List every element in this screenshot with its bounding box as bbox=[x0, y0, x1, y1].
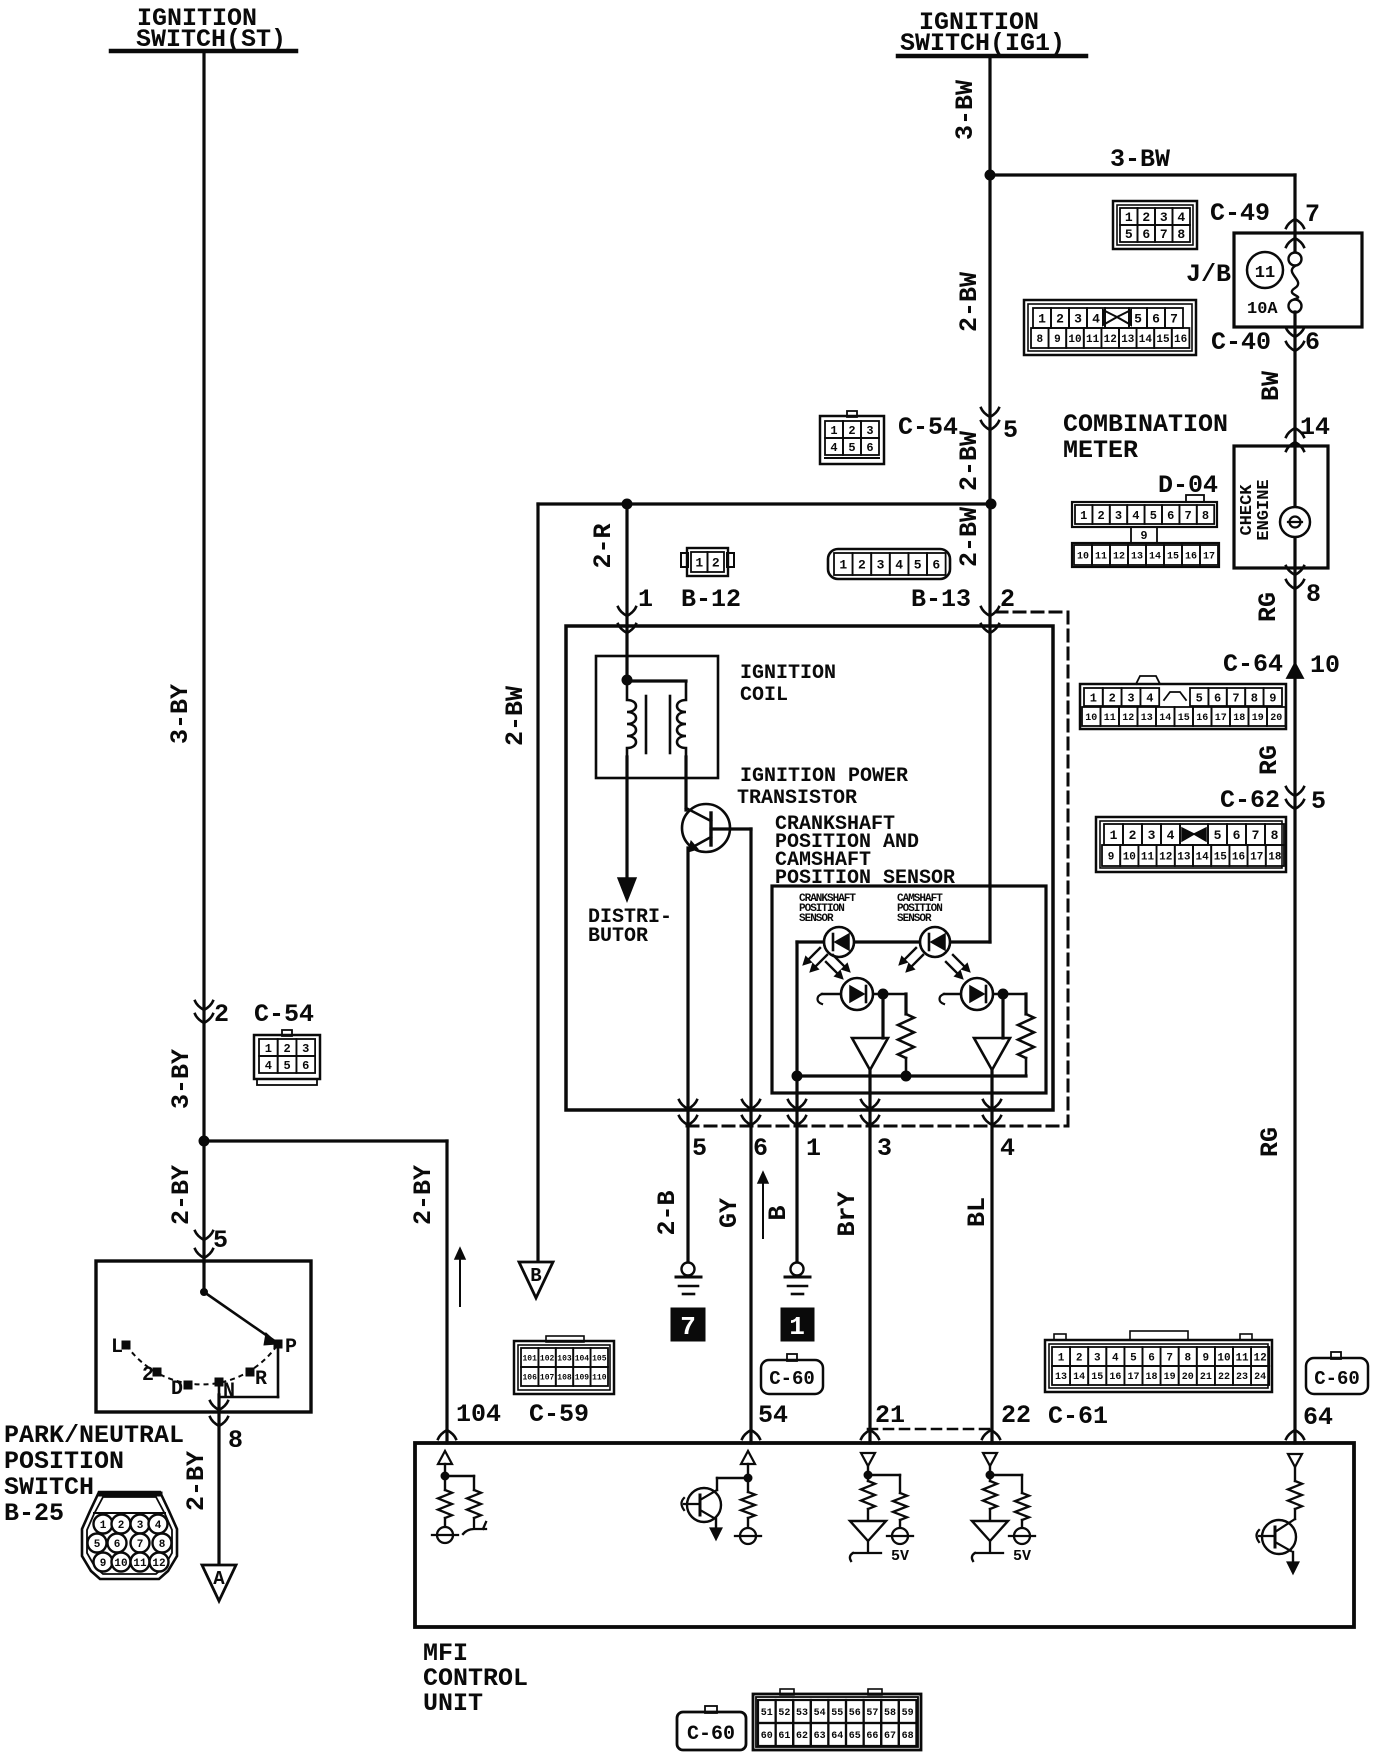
resistor MFI 104 pull left bbox=[444, 1476, 446, 1490]
svg-text:3: 3 bbox=[1160, 210, 1168, 225]
MFI input triangle pin 54 bbox=[741, 1451, 755, 1464]
resistor crank load bbox=[898, 1014, 914, 1058]
svg-text:C-59: C-59 bbox=[529, 1400, 589, 1429]
svg-text:2-BW: 2-BW bbox=[955, 507, 984, 567]
svg-text:16: 16 bbox=[1232, 851, 1245, 863]
svg-text:101: 101 bbox=[522, 1354, 537, 1363]
svg-text:53: 53 bbox=[796, 1708, 808, 1719]
wire 2-BY horizontal to MFI 104 bbox=[204, 1139, 447, 1142]
svg-text:14: 14 bbox=[1195, 851, 1209, 863]
svg-text:109: 109 bbox=[575, 1373, 590, 1382]
svg-text:ENGINE: ENGINE bbox=[1255, 479, 1274, 540]
node MFI 22 bbox=[986, 1471, 994, 1479]
svg-text:TRANSISTOR: TRANSISTOR bbox=[737, 787, 857, 810]
svg-text:2: 2 bbox=[858, 558, 866, 573]
svg-text:8: 8 bbox=[1184, 1352, 1191, 1364]
ground marker 1 bbox=[781, 1308, 814, 1341]
svg-text:12: 12 bbox=[1104, 334, 1117, 346]
svg-text:15: 15 bbox=[1091, 1372, 1103, 1383]
wire 3-BW vertical from ignition switch IG1 bbox=[988, 58, 991, 504]
svg-text:11: 11 bbox=[133, 1558, 147, 1570]
crank/cam sensor inner box bbox=[772, 886, 1046, 1093]
wire switch output bbox=[217, 1395, 220, 1566]
svg-text:13: 13 bbox=[1141, 713, 1153, 724]
svg-text:16: 16 bbox=[1109, 1372, 1121, 1383]
svg-text:2-BY: 2-BY bbox=[409, 1165, 438, 1225]
wire P to N link bbox=[277, 1348, 280, 1397]
svg-text:103: 103 bbox=[557, 1354, 572, 1363]
svg-text:7: 7 bbox=[1252, 828, 1260, 843]
svg-text:SWITCH(IG1): SWITCH(IG1) bbox=[900, 29, 1065, 58]
svg-text:5: 5 bbox=[1196, 691, 1203, 705]
wire coil primary to distributor rotor bbox=[625, 757, 628, 882]
svg-text:4: 4 bbox=[1132, 509, 1139, 523]
svg-text:9: 9 bbox=[1108, 851, 1115, 863]
svg-text:4: 4 bbox=[1000, 1134, 1015, 1163]
svg-text:5V: 5V bbox=[1013, 1548, 1031, 1565]
direction arrow beside 2-BY bbox=[459, 1254, 461, 1306]
svg-text:11: 11 bbox=[1235, 1352, 1249, 1364]
svg-text:6: 6 bbox=[866, 441, 873, 455]
svg-text:6: 6 bbox=[1214, 691, 1221, 705]
svg-text:1: 1 bbox=[100, 1520, 107, 1532]
node coil top junction bbox=[622, 675, 632, 685]
svg-text:14: 14 bbox=[1159, 713, 1171, 724]
svg-text:59: 59 bbox=[902, 1708, 914, 1719]
connector C-60 bottom badge bbox=[677, 1712, 746, 1750]
terminal circle MFI 104 bbox=[437, 1527, 453, 1543]
svg-text:1: 1 bbox=[789, 1312, 805, 1342]
wire LED return to ground bus bbox=[795, 942, 798, 1076]
svg-text:5: 5 bbox=[283, 1059, 290, 1073]
check engine lamp bulb bbox=[1280, 507, 1310, 537]
wire into park/neutral switch bbox=[202, 1141, 205, 1262]
svg-text:B-12: B-12 bbox=[681, 585, 741, 614]
connector C-54 left bbox=[282, 1030, 292, 1036]
svg-text:11: 11 bbox=[1255, 264, 1275, 283]
svg-text:1: 1 bbox=[1080, 509, 1087, 523]
svg-text:6: 6 bbox=[302, 1059, 309, 1073]
svg-text:8: 8 bbox=[1251, 691, 1258, 705]
svg-text:C-64: C-64 bbox=[1223, 650, 1283, 679]
svg-text:6: 6 bbox=[1148, 1352, 1155, 1364]
svg-text:5: 5 bbox=[1150, 509, 1157, 523]
svg-text:4: 4 bbox=[830, 441, 837, 455]
svg-text:SWITCH: SWITCH bbox=[4, 1473, 94, 1502]
ignition switch ST terminal bar bbox=[111, 49, 296, 54]
svg-text:5V: 5V bbox=[891, 1548, 909, 1565]
svg-text:1: 1 bbox=[1038, 312, 1046, 327]
svg-text:54: 54 bbox=[814, 1708, 826, 1719]
comparator triangle MFI 22 bbox=[972, 1521, 1008, 1541]
svg-text:2: 2 bbox=[1097, 509, 1104, 523]
svg-text:106: 106 bbox=[522, 1373, 537, 1382]
wire drop into J/B fuse bbox=[1293, 175, 1296, 253]
svg-text:8: 8 bbox=[228, 1426, 243, 1455]
svg-text:1: 1 bbox=[638, 585, 653, 614]
pin arrows at assembly bottom bbox=[679, 1100, 697, 1109]
wire 2-BY vertical to MFI 104 bbox=[445, 1141, 448, 1443]
svg-text:16: 16 bbox=[1174, 334, 1187, 346]
resistor MFI 22 series bbox=[989, 1475, 991, 1481]
svg-text:3: 3 bbox=[1115, 509, 1122, 523]
connector C-59 bbox=[514, 1341, 614, 1394]
camshaft phototransistor bbox=[944, 993, 1026, 996]
fuse element symbol bbox=[1289, 253, 1302, 266]
MFI input triangle pin 64 bbox=[1288, 1454, 1302, 1467]
svg-text:BW: BW bbox=[1257, 371, 1286, 401]
svg-text:1: 1 bbox=[1090, 691, 1097, 705]
svg-text:4: 4 bbox=[895, 558, 903, 573]
contact R bbox=[246, 1368, 254, 1376]
svg-text:8: 8 bbox=[1036, 334, 1043, 346]
svg-text:4: 4 bbox=[1112, 1352, 1119, 1364]
svg-text:6: 6 bbox=[1142, 227, 1150, 242]
svg-text:15: 15 bbox=[1178, 713, 1190, 724]
svg-text:9: 9 bbox=[1203, 1352, 1210, 1364]
svg-text:SENSOR: SENSOR bbox=[799, 913, 834, 925]
wire crank output BrY to pin 3 bbox=[868, 1070, 871, 1443]
svg-text:105: 105 bbox=[592, 1354, 607, 1363]
svg-text:65: 65 bbox=[849, 1731, 861, 1742]
svg-text:5: 5 bbox=[213, 1226, 228, 1255]
transistor Q ignition power bbox=[682, 804, 730, 852]
svg-text:6: 6 bbox=[1152, 312, 1160, 327]
svg-text:4: 4 bbox=[265, 1059, 272, 1073]
svg-text:6: 6 bbox=[1305, 328, 1320, 357]
svg-text:9: 9 bbox=[100, 1558, 107, 1570]
pin 2 arrows into ignition assembly bbox=[981, 607, 999, 616]
svg-text:6: 6 bbox=[1167, 509, 1174, 523]
svg-text:IGNITION: IGNITION bbox=[740, 662, 836, 685]
svg-text:108: 108 bbox=[557, 1373, 572, 1382]
pin 10 arrow on RG wire bbox=[1287, 663, 1303, 678]
ground chassis for 2-B bbox=[682, 1263, 695, 1276]
wire 2-BW horizontal distribution bbox=[538, 502, 991, 505]
svg-text:IGNITION POWER: IGNITION POWER bbox=[740, 765, 908, 788]
svg-text:2-BY: 2-BY bbox=[182, 1451, 211, 1511]
svg-text:2: 2 bbox=[283, 1042, 290, 1056]
svg-text:METER: METER bbox=[1063, 436, 1138, 465]
fuse 11 circle bbox=[1247, 252, 1283, 288]
svg-text:12: 12 bbox=[1113, 552, 1125, 563]
node crank PT output bbox=[878, 989, 888, 999]
svg-text:62: 62 bbox=[796, 1731, 808, 1742]
combination meter CHECK ENGINE lamp box bbox=[1234, 446, 1328, 568]
svg-text:3: 3 bbox=[1094, 1352, 1101, 1364]
svg-text:5: 5 bbox=[1003, 416, 1018, 445]
wire 2-BW continue to B-13 pin 2 bbox=[988, 504, 991, 942]
svg-text:8: 8 bbox=[159, 1539, 166, 1551]
svg-text:7: 7 bbox=[1232, 691, 1239, 705]
node crank resistor to bus bbox=[901, 1071, 911, 1081]
svg-text:3: 3 bbox=[137, 1520, 144, 1532]
svg-text:6: 6 bbox=[753, 1134, 768, 1163]
dashed boundary of distributor assembly bbox=[996, 611, 1068, 614]
pin 2 arrows at left C-54 bbox=[195, 1001, 213, 1010]
svg-text:22: 22 bbox=[1218, 1372, 1230, 1383]
svg-text:2-BW: 2-BW bbox=[955, 431, 984, 491]
svg-text:2: 2 bbox=[712, 556, 720, 571]
distributor assembly box bbox=[566, 626, 1053, 1110]
svg-text:10: 10 bbox=[1310, 651, 1340, 680]
svg-text:23: 23 bbox=[1236, 1372, 1248, 1383]
light arrows onto crank phototransistor bbox=[826, 962, 837, 973]
svg-text:5: 5 bbox=[1134, 312, 1142, 327]
svg-text:12: 12 bbox=[152, 1558, 165, 1570]
svg-text:2-R: 2-R bbox=[589, 523, 618, 568]
svg-text:11: 11 bbox=[1095, 552, 1107, 563]
wire 3-BW horizontal branch to J/B bbox=[990, 173, 1295, 176]
wire 64 arrow bbox=[1286, 1430, 1304, 1439]
svg-text:12: 12 bbox=[1159, 851, 1172, 863]
svg-text:4: 4 bbox=[155, 1520, 162, 1532]
svg-text:19: 19 bbox=[1164, 1372, 1176, 1383]
svg-text:C-40: C-40 bbox=[1211, 328, 1271, 357]
svg-text:C-60: C-60 bbox=[687, 1723, 735, 1746]
svg-text:1: 1 bbox=[1110, 828, 1118, 843]
svg-text:5: 5 bbox=[914, 558, 922, 573]
svg-text:C-60: C-60 bbox=[769, 1368, 815, 1390]
pin 8 arrows below check engine bbox=[1286, 566, 1304, 575]
switch common feed bbox=[202, 1261, 205, 1289]
wire to cam load resistor bbox=[1024, 994, 1027, 1014]
wire base GY down to MFI 54 bbox=[749, 829, 752, 1443]
svg-text:13: 13 bbox=[1177, 851, 1191, 863]
ground marker 7 bbox=[671, 1308, 705, 1341]
svg-text:8: 8 bbox=[1271, 828, 1279, 843]
pin 8 arrows out of park/neutral switch bbox=[210, 1401, 228, 1410]
5V terminal MFI 21 bbox=[892, 1528, 908, 1544]
connector B-13 bbox=[828, 549, 950, 579]
svg-text:1: 1 bbox=[1125, 210, 1133, 225]
connector C-40 bbox=[1024, 300, 1196, 355]
svg-text:11: 11 bbox=[1086, 334, 1100, 346]
svg-text:5: 5 bbox=[1214, 828, 1222, 843]
svg-text:10: 10 bbox=[1217, 1352, 1230, 1364]
svg-text:2: 2 bbox=[214, 1000, 229, 1029]
svg-text:B-25: B-25 bbox=[4, 1499, 64, 1528]
terminal circle MFI 54 bbox=[740, 1528, 756, 1544]
svg-text:1: 1 bbox=[806, 1134, 821, 1163]
MFI input triangle pin 104 bbox=[438, 1451, 452, 1464]
svg-text:3-BY: 3-BY bbox=[166, 684, 195, 744]
svg-text:RG: RG bbox=[1255, 745, 1284, 775]
LED light arrows crankshaft bbox=[809, 948, 820, 959]
svg-text:L: L bbox=[111, 1336, 123, 1359]
svg-text:104: 104 bbox=[575, 1354, 590, 1363]
resistor MFI 64 bbox=[1288, 1481, 1302, 1509]
triangle connector B bbox=[519, 1262, 553, 1298]
svg-text:2-BY: 2-BY bbox=[167, 1165, 196, 1225]
svg-text:C-54: C-54 bbox=[898, 413, 958, 442]
svg-text:3-BY: 3-BY bbox=[167, 1049, 196, 1109]
svg-text:17: 17 bbox=[1250, 851, 1263, 863]
svg-text:15: 15 bbox=[1214, 851, 1228, 863]
svg-text:11: 11 bbox=[1104, 713, 1116, 724]
node MFI 54 bbox=[744, 1474, 752, 1482]
svg-text:58: 58 bbox=[884, 1708, 896, 1719]
svg-text:1: 1 bbox=[839, 558, 847, 573]
svg-text:10: 10 bbox=[1077, 552, 1089, 563]
contact D bbox=[184, 1381, 192, 1389]
pin 5 arrows on RG wire at C-62 bbox=[1286, 787, 1304, 796]
svg-text:A: A bbox=[213, 1568, 225, 1590]
svg-text:10: 10 bbox=[1085, 713, 1097, 724]
resistor MFI 54 bbox=[747, 1478, 749, 1492]
svg-text:17: 17 bbox=[1203, 552, 1215, 563]
svg-text:24: 24 bbox=[1254, 1372, 1266, 1383]
svg-text:3: 3 bbox=[1127, 691, 1134, 705]
node cam PT output bbox=[998, 989, 1008, 999]
switch arm bbox=[201, 1289, 208, 1296]
svg-text:104: 104 bbox=[456, 1400, 501, 1429]
svg-text:18: 18 bbox=[1146, 1372, 1158, 1383]
connector B-25 face bbox=[82, 1492, 177, 1579]
connector C-60 right bbox=[1306, 1358, 1368, 1394]
node junction 3-BW branch bbox=[985, 170, 995, 180]
svg-text:1: 1 bbox=[265, 1042, 272, 1056]
wire through check engine lamp bbox=[1293, 446, 1296, 1443]
svg-text:4: 4 bbox=[1146, 691, 1153, 705]
node junction at 2-R bbox=[622, 499, 632, 509]
svg-text:10: 10 bbox=[1068, 334, 1081, 346]
svg-text:5: 5 bbox=[1125, 227, 1133, 242]
svg-text:68: 68 bbox=[902, 1731, 914, 1742]
triangle connector A bbox=[202, 1565, 236, 1601]
svg-text:3: 3 bbox=[877, 1134, 892, 1163]
svg-text:63: 63 bbox=[814, 1731, 826, 1742]
contact N bbox=[215, 1378, 223, 1386]
svg-text:9: 9 bbox=[1140, 529, 1147, 543]
svg-text:18: 18 bbox=[1268, 851, 1282, 863]
ignition coil core bbox=[645, 696, 648, 753]
svg-text:8: 8 bbox=[1202, 509, 1209, 523]
crankshaft phototransistor bbox=[822, 993, 906, 996]
svg-text:64: 64 bbox=[831, 1731, 843, 1742]
svg-text:N: N bbox=[223, 1380, 235, 1403]
resistor MFI 22 pullup bbox=[1015, 1493, 1029, 1520]
svg-text:3: 3 bbox=[866, 424, 873, 438]
svg-text:COIL: COIL bbox=[740, 684, 788, 707]
svg-text:C-54: C-54 bbox=[254, 1000, 314, 1029]
svg-text:D: D bbox=[171, 1378, 183, 1401]
contact 2 bbox=[153, 1368, 161, 1376]
svg-text:8: 8 bbox=[1177, 227, 1185, 242]
MFI input triangle pin 21 bbox=[861, 1453, 875, 1466]
svg-text:2: 2 bbox=[1076, 1352, 1083, 1364]
svg-text:7: 7 bbox=[1170, 312, 1178, 327]
svg-text:107: 107 bbox=[540, 1373, 555, 1382]
svg-text:7: 7 bbox=[1305, 200, 1320, 229]
svg-text:COMBINATION: COMBINATION bbox=[1063, 410, 1228, 439]
svg-text:3: 3 bbox=[1074, 312, 1082, 327]
junction block J/B bbox=[1234, 233, 1362, 327]
svg-text:18: 18 bbox=[1233, 713, 1245, 724]
svg-text:102: 102 bbox=[540, 1354, 555, 1363]
svg-text:22: 22 bbox=[1001, 1401, 1031, 1430]
svg-text:15: 15 bbox=[1167, 552, 1179, 563]
svg-text:4: 4 bbox=[1177, 210, 1185, 225]
wire 22 arrow bbox=[982, 1430, 1000, 1439]
svg-text:J/B: J/B bbox=[1186, 260, 1231, 289]
svg-text:10: 10 bbox=[1123, 851, 1136, 863]
svg-text:C-61: C-61 bbox=[1048, 1402, 1108, 1431]
wire transistor base to pin 6 bbox=[711, 827, 751, 830]
svg-text:2: 2 bbox=[118, 1520, 125, 1532]
ground chassis for B bbox=[791, 1263, 804, 1276]
svg-text:2: 2 bbox=[1056, 312, 1064, 327]
connector B-12 bbox=[681, 553, 688, 567]
svg-text:16: 16 bbox=[1196, 713, 1208, 724]
MFI 104 branch bbox=[445, 1475, 474, 1477]
svg-text:C-49: C-49 bbox=[1210, 199, 1270, 228]
ignition coil secondary winding bbox=[677, 681, 686, 757]
svg-text:2: 2 bbox=[1129, 828, 1137, 843]
ignition coil box bbox=[596, 656, 718, 778]
node bus left bbox=[792, 1071, 802, 1081]
switch contact arc dashed bbox=[127, 1344, 278, 1384]
svg-text:110: 110 bbox=[592, 1373, 607, 1382]
wire to crank load resistor bbox=[904, 994, 907, 1014]
svg-text:2: 2 bbox=[142, 1364, 154, 1387]
wire 2-R down to B-12 bbox=[625, 504, 628, 680]
svg-text:14: 14 bbox=[1073, 1372, 1085, 1383]
svg-text:BUTOR: BUTOR bbox=[588, 925, 648, 948]
svg-text:R: R bbox=[255, 1368, 267, 1391]
svg-text:60: 60 bbox=[761, 1731, 773, 1742]
svg-text:57: 57 bbox=[866, 1708, 878, 1719]
svg-text:RG: RG bbox=[1256, 1127, 1285, 1157]
svg-text:12: 12 bbox=[1122, 713, 1134, 724]
svg-text:20: 20 bbox=[1270, 713, 1282, 724]
pin 14 arrow into combination meter bbox=[1286, 428, 1304, 437]
light arrows onto cam phototransistor bbox=[946, 962, 957, 973]
svg-text:14: 14 bbox=[1139, 334, 1153, 346]
svg-text:2-BW: 2-BW bbox=[955, 272, 984, 332]
MFI control unit box bbox=[415, 1443, 1354, 1627]
ignition switch IG1 terminal bar bbox=[898, 54, 1086, 59]
svg-text:B-13: B-13 bbox=[911, 585, 971, 614]
resistor MFI 104 pull right bbox=[467, 1490, 481, 1518]
svg-text:2: 2 bbox=[848, 424, 855, 438]
op-amp cam buffer bbox=[974, 1038, 1010, 1070]
pin 7 arrow into J/B bbox=[1286, 219, 1304, 228]
svg-text:7: 7 bbox=[1166, 1352, 1173, 1364]
5V terminal MFI 22 bbox=[1014, 1528, 1030, 1544]
transistor MFI 64 bbox=[1262, 1520, 1296, 1554]
node MFI 104 bbox=[441, 1472, 449, 1480]
LED camshaft photodiode bbox=[920, 927, 950, 957]
svg-text:BrY: BrY bbox=[833, 1191, 862, 1236]
wire transistor emitter to pin 5 bbox=[686, 848, 689, 1262]
svg-text:16: 16 bbox=[1185, 552, 1197, 563]
svg-text:4: 4 bbox=[1167, 828, 1175, 843]
svg-text:B: B bbox=[764, 1205, 793, 1220]
MFI 54 internal ground arrow bbox=[710, 1528, 722, 1540]
park/neutral position switch box bbox=[96, 1261, 311, 1412]
transistor MFI 54 bbox=[687, 1488, 721, 1522]
ignition coil primary winding bbox=[627, 681, 636, 757]
svg-text:17: 17 bbox=[1215, 713, 1227, 724]
svg-text:5: 5 bbox=[848, 441, 855, 455]
node junction 2-BY split bbox=[199, 1136, 209, 1146]
svg-text:21: 21 bbox=[1200, 1372, 1212, 1383]
svg-text:1: 1 bbox=[695, 556, 703, 571]
dashed link pins 21-22 bbox=[868, 1428, 992, 1431]
svg-text:8: 8 bbox=[1306, 580, 1321, 609]
wire coil secondary to transistor collector bbox=[684, 757, 687, 810]
